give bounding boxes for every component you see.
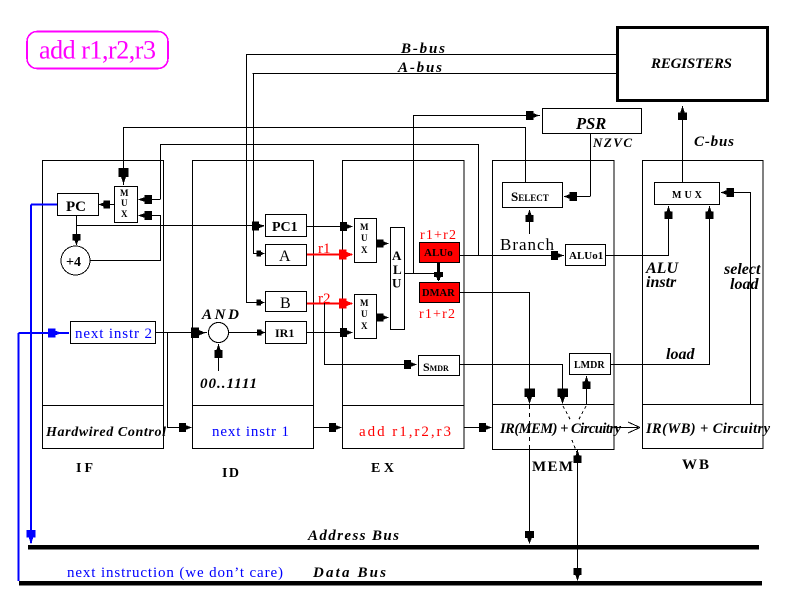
wire: EX upper mux to ALU <box>377 243 388 245</box>
stage box MEM latch (IR(MEM) + Circuitry) <box>493 405 622 450</box>
wire: B output (r2) red to EX mux <box>307 303 352 305</box>
wire: data bus up to next instr 2 (blue) <box>18 333 20 581</box>
wire: SMDR output to memory data <box>459 364 562 366</box>
B register box <box>266 292 307 313</box>
wire: ALUo1 up to WB mux <box>606 255 668 257</box>
wire: ALU output <box>405 273 438 275</box>
svg-text:Smdr: Smdr <box>423 360 449 374</box>
wire: IF mux to PC <box>99 204 114 206</box>
PC register box <box>58 194 99 216</box>
wire: select horizontal from SELECT over to IF <box>123 127 526 129</box>
svg-text:ID: ID <box>222 466 239 481</box>
wire: branch target into IF mux right input <box>139 199 160 201</box>
svg-text:Hardwired Control: Hardwired Control <box>45 425 166 440</box>
wire: IR(MEM) to IR(WB) open arrow <box>614 427 638 429</box>
svg-text:add r1,r2,r3: add r1,r2,r3 <box>39 36 156 65</box>
stage box IF <box>43 161 164 406</box>
svg-text:U: U <box>361 309 368 319</box>
EX mux upper box <box>355 219 377 263</box>
wire: LMDR output up to WB mux <box>611 364 709 366</box>
IF mux box <box>115 187 138 223</box>
svg-text:next instr 2: next instr 2 <box>75 326 152 342</box>
stage box WB <box>643 161 764 405</box>
wire: ALUo output to ALUo1 (branch value) <box>460 255 564 257</box>
wire: select vertical into IF mux top <box>123 128 125 172</box>
svg-text:r1+r2: r1+r2 <box>419 307 455 322</box>
wire: branch target horizontal <box>161 144 479 146</box>
svg-text:IF: IF <box>76 461 93 476</box>
stage box MEM <box>493 161 615 405</box>
PC1 register box <box>266 215 307 237</box>
wire: A-bus arrow into A <box>253 253 264 255</box>
wire: MEM address down to Address Bus <box>529 449 531 543</box>
svg-text:X: X <box>361 245 368 255</box>
svg-text:next instruction (we don’t car: next instruction (we don’t care) <box>67 565 283 581</box>
svg-text:PC1: PC1 <box>272 220 298 235</box>
wire: ALUo down to DMAR with arrow <box>437 263 440 280</box>
stage box ID latch (next instr 1) <box>193 406 314 449</box>
wire: branch condition stub into SELECT bottom <box>529 210 531 234</box>
svg-text:load: load <box>730 276 759 293</box>
svg-text:IR(WB) + Circuitry: IR(WB) + Circuitry <box>645 421 771 437</box>
Address Bus (thick) <box>28 545 759 550</box>
A-bus wire vertical down to A input <box>253 73 255 253</box>
WB mux box <box>655 183 720 205</box>
svg-text:00..1111: 00..1111 <box>200 376 257 392</box>
wire: dashed DMAR address inside MEM latch <box>529 405 531 449</box>
svg-text:MEM: MEM <box>532 459 573 475</box>
wire: PC down to +4 <box>76 215 78 245</box>
wire: B tap down to SMDR <box>324 303 326 365</box>
A-bus wire (horizontal to REGISTERS) <box>253 73 617 75</box>
wire: PC to address bus (blue) <box>31 204 57 206</box>
wire: next instr 2 output to AND <box>156 332 207 334</box>
svg-text:r1+r2: r1+r2 <box>420 228 456 243</box>
wire: select load vertical from IR(WB) <box>750 192 752 405</box>
wire: memory data to/from Data Bus (double arrow) <box>577 450 579 580</box>
svg-text:AND: AND <box>201 307 239 323</box>
SELECT box <box>503 183 563 208</box>
svg-text:U: U <box>361 233 368 243</box>
EX mux lower box <box>355 295 377 339</box>
stage box EX latch (add r1,r2,r3) <box>343 406 465 449</box>
svg-text:M: M <box>360 222 369 232</box>
svg-text:U: U <box>121 198 128 208</box>
svg-text:B: B <box>280 295 291 312</box>
wire: select load into WB mux right <box>721 192 750 194</box>
A register box <box>266 245 307 266</box>
svg-text:ALUo: ALUo <box>424 247 453 259</box>
stage box IF control (Hardwired Control) <box>43 406 167 449</box>
svg-text:Branch: Branch <box>500 235 555 254</box>
next instr 2 box <box>71 322 156 344</box>
svg-text:load: load <box>666 346 695 363</box>
wire: AND to IR1 <box>229 332 265 334</box>
svg-text:MUX: MUX <box>672 190 705 201</box>
LMDR latch box <box>570 354 611 375</box>
wire: EX latch to MEM latch arrow <box>464 427 491 429</box>
svg-text:Data Bus: Data Bus <box>312 565 386 581</box>
ALUo latch box (red) <box>420 243 460 263</box>
PSR box <box>543 109 642 134</box>
svg-text:WB: WB <box>682 457 709 473</box>
wire: A output (r1) red to EX mux <box>307 254 352 256</box>
B-bus wire (horizontal to REGISTERS) <box>246 54 616 56</box>
svg-text:M: M <box>120 188 129 198</box>
wire: B-bus arrow into B <box>246 302 264 304</box>
wire: select vertical down to SELECT box top <box>525 127 527 182</box>
wire: IR1 tap down to EX latch <box>313 332 315 427</box>
wire: +4 output loop back to IF mux <box>90 260 161 262</box>
DMAR latch box (red) <box>420 283 460 303</box>
svg-text:A: A <box>279 248 291 265</box>
svg-text:IR(MEM) + Circuitry: IR(MEM) + Circuitry <box>499 421 622 437</box>
svg-text:U: U <box>392 276 402 291</box>
ALU box <box>391 228 405 330</box>
wire: branch target vertical down to IF mux input <box>160 144 162 200</box>
svg-text:Address Bus: Address Bus <box>307 528 399 544</box>
ALUo1 latch box <box>566 245 606 266</box>
stage box WB latch (IR(WB) + Circuitry) <box>643 405 771 449</box>
svg-text:C-bus: C-bus <box>694 134 734 150</box>
Data Bus (thick) <box>19 581 762 586</box>
svg-text:M: M <box>360 298 369 308</box>
svg-text:DMAR: DMAR <box>422 288 455 299</box>
svg-text:X: X <box>121 209 128 219</box>
AND gate circle <box>201 307 239 343</box>
svg-text:Select: Select <box>511 189 549 204</box>
wire: branch target vertical at EX/MEM boundary <box>478 144 480 255</box>
wire: PC1 output to EX mux <box>307 226 352 228</box>
IR1 register box <box>266 322 307 344</box>
svg-text:next instr 1: next instr 1 <box>212 424 289 440</box>
wire: IR1 output to EX mux <box>307 332 352 334</box>
wire: next instr 2 tap down to next instr 1 <box>167 332 169 427</box>
wire: NZVC from PSR down to SELECT <box>590 134 592 197</box>
svg-text:X: X <box>361 321 368 331</box>
svg-text:IR1: IR1 <box>275 326 294 340</box>
svg-text:add r1,r2,r3: add r1,r2,r3 <box>359 424 451 440</box>
stage box EX <box>343 161 465 406</box>
svg-text:PC: PC <box>66 199 86 215</box>
B-bus wire vertical down to B input <box>246 54 248 302</box>
wire: C-bus from WB mux up to REGISTERS <box>682 106 684 182</box>
SMDR latch box <box>419 356 460 376</box>
svg-text:REGISTERS: REGISTERS <box>650 56 732 72</box>
instruction label box (magenta rounded) <box>27 32 168 69</box>
svg-text:LMDR: LMDR <box>574 360 605 371</box>
wire: dashed links to circuitry <box>563 406 571 421</box>
svg-text:+4: +4 <box>66 255 81 270</box>
REGISTERS box U-REG <box>618 28 768 101</box>
svg-text:A: A <box>392 248 402 263</box>
+4 adder circle <box>61 246 90 275</box>
stage box ID <box>193 161 314 406</box>
wire: mask 00..1111 up into AND <box>218 344 220 371</box>
wire: PC value over to PC1 <box>76 225 264 227</box>
svg-text:ALUo1: ALUo1 <box>569 250 603 262</box>
wire: memory read data up into LMDR <box>586 376 588 404</box>
svg-text:PSR: PSR <box>575 114 606 133</box>
wire: DMAR output to memory address <box>460 292 529 294</box>
wire: EX lower mux to ALU <box>377 317 388 319</box>
wire: ALU result up to PSR <box>413 115 415 274</box>
svg-text:instr: instr <box>646 274 677 291</box>
